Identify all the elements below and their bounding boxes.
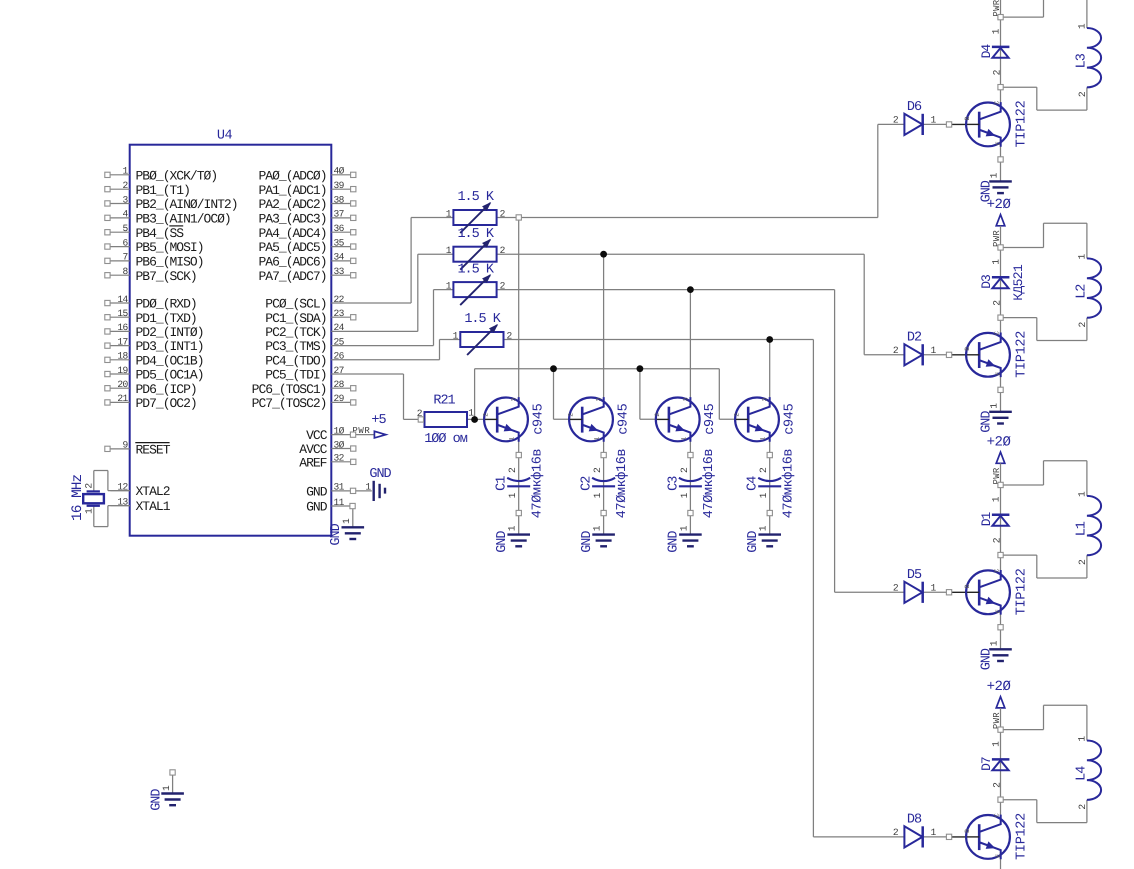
svg-text:PB2_(AINØ/INT2): PB2_(AINØ/INT2) xyxy=(136,197,238,212)
svg-text:2: 2 xyxy=(733,413,740,417)
svg-text:2: 2 xyxy=(758,467,769,473)
svg-text:1: 1 xyxy=(592,525,603,531)
svg-text:C: C xyxy=(994,813,1001,817)
svg-text:C4: C4 xyxy=(746,476,761,491)
svg-text:1: 1 xyxy=(991,259,1002,265)
svg-text:B: B xyxy=(964,116,971,120)
svg-text:D4: D4 xyxy=(979,44,994,59)
svg-text:47Øмкф16в: 47Øмкф16в xyxy=(702,449,717,519)
svg-text:17: 17 xyxy=(117,336,127,347)
svg-text:39: 39 xyxy=(334,180,345,191)
svg-text:1: 1 xyxy=(341,518,352,524)
svg-text:КД521: КД521 xyxy=(1011,264,1026,301)
svg-text:+2Ø: +2Ø xyxy=(987,197,1011,213)
svg-text:1.5 K: 1.5 K xyxy=(457,262,494,277)
svg-text:D2: D2 xyxy=(907,331,922,346)
svg-text:TIP122: TIP122 xyxy=(1014,813,1029,860)
svg-text:PD7_(OC2): PD7_(OC2) xyxy=(136,396,197,411)
svg-text:3Ø: 3Ø xyxy=(334,439,345,450)
svg-text:PA4_(ADC4): PA4_(ADC4) xyxy=(258,226,326,241)
svg-text:20: 20 xyxy=(117,379,128,390)
svg-text:1: 1 xyxy=(365,482,371,493)
svg-text:47Øмкф16в: 47Øмкф16в xyxy=(615,449,630,519)
svg-text:1ØØ ом: 1ØØ ом xyxy=(424,432,468,447)
svg-text:1: 1 xyxy=(594,437,601,441)
svg-text:PA1_(ADC1): PA1_(ADC1) xyxy=(258,183,326,198)
svg-text:PC1_(SDA): PC1_(SDA) xyxy=(265,311,326,326)
svg-text:3: 3 xyxy=(596,397,603,401)
svg-text:C2: C2 xyxy=(580,476,595,491)
svg-text:PD6_(ICP): PD6_(ICP) xyxy=(136,382,197,397)
svg-text:L4: L4 xyxy=(1074,766,1089,781)
svg-text:PB1_(T1): PB1_(T1) xyxy=(136,183,190,198)
svg-text:1: 1 xyxy=(931,827,937,838)
svg-text:D7: D7 xyxy=(979,757,994,771)
svg-text:PDØ_(RXD): PDØ_(RXD) xyxy=(136,297,197,312)
svg-text:GND: GND xyxy=(150,789,165,811)
svg-text:B: B xyxy=(964,584,971,588)
svg-text:2: 2 xyxy=(500,281,506,292)
svg-text:PA5_(ADC5): PA5_(ADC5) xyxy=(258,240,326,255)
svg-text:2: 2 xyxy=(1077,804,1088,810)
svg-text:c945: c945 xyxy=(531,403,546,434)
svg-text:37: 37 xyxy=(334,209,344,220)
svg-text:14: 14 xyxy=(117,294,128,305)
svg-text:2: 2 xyxy=(893,345,899,356)
svg-text:PB6_(MISO): PB6_(MISO) xyxy=(136,255,204,270)
svg-text:D3: D3 xyxy=(979,275,994,289)
svg-text:2: 2 xyxy=(1077,91,1088,97)
svg-text:PD4_(OC1B): PD4_(OC1B) xyxy=(136,353,204,368)
svg-text:1: 1 xyxy=(931,582,937,593)
svg-text:1.5 K: 1.5 K xyxy=(464,312,501,327)
svg-text:PD1_(TXD): PD1_(TXD) xyxy=(136,311,197,326)
svg-text:33: 33 xyxy=(334,266,345,277)
svg-text:PC2_(TCK): PC2_(TCK) xyxy=(265,325,326,340)
svg-text:2: 2 xyxy=(893,114,899,125)
svg-text:2: 2 xyxy=(1077,559,1088,565)
svg-text:L1: L1 xyxy=(1074,521,1089,536)
svg-text:XTAL1: XTAL1 xyxy=(136,499,171,514)
svg-text:PA2_(ADC2): PA2_(ADC2) xyxy=(258,197,326,212)
svg-text:1: 1 xyxy=(991,496,1002,502)
svg-text:36: 36 xyxy=(334,223,345,234)
svg-text:VCC: VCC xyxy=(306,428,328,443)
svg-text:1: 1 xyxy=(123,166,129,177)
svg-text:8: 8 xyxy=(123,266,129,277)
svg-text:E: E xyxy=(995,141,1002,145)
svg-text:C3: C3 xyxy=(666,476,681,491)
svg-text:23: 23 xyxy=(334,308,345,319)
svg-text:TIP122: TIP122 xyxy=(1014,568,1029,615)
svg-text:2: 2 xyxy=(567,413,574,417)
svg-text:C: C xyxy=(994,101,1001,105)
svg-text:3: 3 xyxy=(762,397,769,401)
svg-text:U4: U4 xyxy=(217,129,233,144)
svg-text:5: 5 xyxy=(123,223,129,234)
svg-text:GND: GND xyxy=(667,531,682,553)
svg-text:1: 1 xyxy=(1076,736,1087,742)
svg-text:1: 1 xyxy=(678,525,689,531)
svg-text:c945: c945 xyxy=(616,403,631,434)
svg-text:PD3_(INT1): PD3_(INT1) xyxy=(136,339,204,354)
svg-text:E: E xyxy=(995,372,1002,376)
svg-text:PB3_(AIN1/OCØ): PB3_(AIN1/OCØ) xyxy=(136,212,231,227)
svg-text:L3: L3 xyxy=(1074,53,1089,68)
svg-text:GND: GND xyxy=(369,467,391,482)
svg-text:PC5_(TDI): PC5_(TDI) xyxy=(265,368,326,383)
svg-text:XTAL2: XTAL2 xyxy=(136,484,170,499)
svg-text:2: 2 xyxy=(654,413,661,417)
svg-text:TIP122: TIP122 xyxy=(1014,100,1029,147)
svg-text:1: 1 xyxy=(453,331,459,342)
svg-text:PD5_(OC1A): PD5_(OC1A) xyxy=(136,368,204,383)
svg-text:1.5 K: 1.5 K xyxy=(457,227,494,242)
svg-text:1: 1 xyxy=(931,345,937,356)
svg-text:2: 2 xyxy=(893,827,899,838)
svg-text:2: 2 xyxy=(893,582,899,593)
svg-text:B: B xyxy=(964,347,971,351)
svg-text:1: 1 xyxy=(446,209,452,220)
svg-text:L2: L2 xyxy=(1074,284,1089,299)
svg-text:2: 2 xyxy=(507,331,513,342)
svg-text:1: 1 xyxy=(760,437,767,441)
svg-text:32: 32 xyxy=(334,453,345,464)
svg-text:1: 1 xyxy=(991,741,1002,747)
svg-text:PA7_(ADC7): PA7_(ADC7) xyxy=(258,269,326,284)
svg-text:E: E xyxy=(995,609,1002,613)
svg-text:35: 35 xyxy=(334,237,345,248)
svg-text:AREF: AREF xyxy=(299,455,326,470)
svg-text:3: 3 xyxy=(682,397,689,401)
svg-text:1: 1 xyxy=(988,640,999,646)
svg-text:9: 9 xyxy=(123,440,129,451)
svg-text:GND: GND xyxy=(979,648,994,670)
svg-text:4: 4 xyxy=(123,209,129,220)
svg-text:C: C xyxy=(994,569,1001,573)
svg-text:1: 1 xyxy=(446,281,452,292)
svg-text:c945: c945 xyxy=(703,403,718,434)
svg-text:2: 2 xyxy=(482,413,489,417)
svg-text:PBØ_(XCK/TØ): PBØ_(XCK/TØ) xyxy=(136,168,218,183)
svg-text:28: 28 xyxy=(334,379,345,390)
svg-text:19: 19 xyxy=(117,365,128,376)
svg-text:6: 6 xyxy=(123,237,129,248)
svg-text:38: 38 xyxy=(334,194,345,205)
svg-text:PC4_(TDO): PC4_(TDO) xyxy=(265,353,326,368)
svg-text:GND: GND xyxy=(580,531,595,553)
svg-text:1: 1 xyxy=(509,437,516,441)
svg-text:4Ø: 4Ø xyxy=(334,166,345,177)
svg-text:D1: D1 xyxy=(979,511,994,526)
svg-text:15: 15 xyxy=(117,308,128,319)
svg-text:47Øмкф16в: 47Øмкф16в xyxy=(781,449,796,519)
svg-text:21: 21 xyxy=(117,393,128,404)
svg-text:1: 1 xyxy=(446,245,452,256)
svg-text:1: 1 xyxy=(991,28,1002,34)
svg-text:PC6_(TOSC1): PC6_(TOSC1) xyxy=(252,382,327,397)
svg-text:C: C xyxy=(994,331,1001,335)
svg-text:GND: GND xyxy=(746,531,761,553)
svg-text:47Øмкф16в: 47Øмкф16в xyxy=(530,449,545,519)
svg-text:D6: D6 xyxy=(907,100,922,115)
svg-text:GND: GND xyxy=(306,485,328,500)
svg-text:1: 1 xyxy=(758,492,769,498)
svg-text:E: E xyxy=(995,854,1002,858)
svg-text:1: 1 xyxy=(1076,491,1087,497)
svg-text:PB7_(SCK): PB7_(SCK) xyxy=(136,269,197,284)
svg-text:PB4_(SS: PB4_(SS xyxy=(136,226,185,241)
svg-text:29: 29 xyxy=(334,393,345,404)
svg-text:R21: R21 xyxy=(433,394,455,409)
svg-text:1: 1 xyxy=(507,492,518,498)
svg-text:2: 2 xyxy=(500,209,506,220)
svg-text:c945: c945 xyxy=(782,403,797,434)
svg-text:PAØ_(ADCØ): PAØ_(ADCØ) xyxy=(258,168,326,183)
svg-text:GND: GND xyxy=(329,523,344,545)
svg-text:1: 1 xyxy=(1076,23,1087,29)
svg-text:2: 2 xyxy=(992,69,1003,75)
svg-text:3: 3 xyxy=(511,397,518,401)
svg-text:TIP122: TIP122 xyxy=(1014,331,1029,378)
svg-text:PA3_(ADC3): PA3_(ADC3) xyxy=(258,212,326,227)
svg-text:1: 1 xyxy=(680,437,687,441)
svg-text:PB5_(MOSI): PB5_(MOSI) xyxy=(136,240,204,255)
svg-text:PD2_(INTØ): PD2_(INTØ) xyxy=(136,325,204,340)
svg-text:2: 2 xyxy=(992,782,1003,788)
svg-text:1: 1 xyxy=(507,525,518,531)
svg-text:3: 3 xyxy=(123,194,129,205)
svg-text:GND: GND xyxy=(979,411,994,433)
svg-text:2: 2 xyxy=(500,245,506,256)
svg-text:PCØ_(SCL): PCØ_(SCL) xyxy=(265,297,326,312)
svg-text:1: 1 xyxy=(592,492,603,498)
svg-text:PC7_(TOSC2): PC7_(TOSC2) xyxy=(252,396,327,411)
svg-text:1: 1 xyxy=(679,492,690,498)
svg-text:D5: D5 xyxy=(907,568,922,583)
svg-text:+2Ø: +2Ø xyxy=(987,435,1011,451)
svg-text:1: 1 xyxy=(931,114,937,125)
svg-text:1: 1 xyxy=(1076,254,1087,260)
svg-text:2: 2 xyxy=(592,467,603,473)
svg-text:1: 1 xyxy=(988,403,999,409)
svg-text:GND: GND xyxy=(495,531,510,553)
svg-text:2: 2 xyxy=(1077,322,1088,328)
svg-text:2: 2 xyxy=(123,180,129,191)
svg-text:16 MHz: 16 MHz xyxy=(70,474,86,521)
svg-text:1: 1 xyxy=(988,172,999,178)
svg-text:2: 2 xyxy=(679,467,690,473)
svg-text:GND: GND xyxy=(306,500,328,515)
svg-text:+5: +5 xyxy=(371,413,386,428)
svg-text:PC3_(TMS): PC3_(TMS) xyxy=(265,339,326,354)
svg-text:34: 34 xyxy=(334,252,345,263)
svg-text:B: B xyxy=(964,829,971,833)
svg-text:18: 18 xyxy=(117,351,128,362)
svg-text:2: 2 xyxy=(992,300,1003,306)
svg-text:PA6_(ADC6): PA6_(ADC6) xyxy=(258,255,326,270)
svg-text:1: 1 xyxy=(758,525,769,531)
svg-text:RESET: RESET xyxy=(136,443,171,458)
svg-text:7: 7 xyxy=(123,252,128,263)
svg-text:C1: C1 xyxy=(495,476,510,491)
svg-text:2: 2 xyxy=(992,537,1003,543)
svg-text:1.5 K: 1.5 K xyxy=(457,190,494,205)
svg-text:+2Ø: +2Ø xyxy=(987,679,1011,695)
svg-text:D8: D8 xyxy=(907,813,922,828)
svg-text:16: 16 xyxy=(117,322,128,333)
svg-text:2: 2 xyxy=(507,467,518,473)
